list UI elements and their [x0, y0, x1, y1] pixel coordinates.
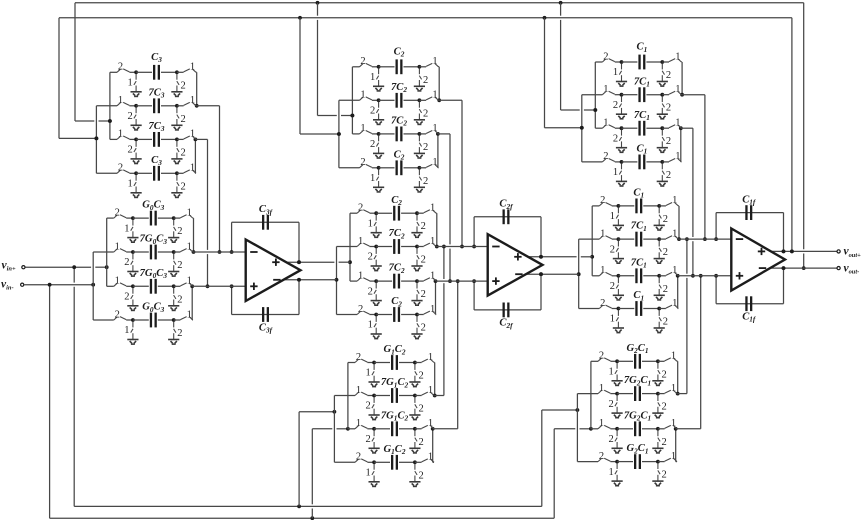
- svg-text:2: 2: [663, 284, 668, 295]
- wire: [177, 138, 184, 140]
- switched-capacitor cell: C2 (row 4): [337, 296, 437, 339]
- svg-text:2: 2: [177, 294, 182, 305]
- svg-text:2: 2: [124, 257, 129, 268]
- node: [580, 126, 584, 130]
- capacitor G0C3: [150, 313, 152, 328]
- wire: [174, 319, 181, 321]
- wire: [404, 99, 420, 101]
- wire: rail rows1&2 right of bank T3: [681, 62, 683, 95]
- switch phase 2 (G0C3 row1 gnd-right): [174, 220, 176, 238]
- node: [657, 307, 661, 311]
- svg-text:2: 2: [124, 292, 129, 303]
- svg-text:1: 1: [672, 298, 677, 309]
- node: [677, 237, 681, 241]
- wire: [676, 428, 701, 430]
- node: [442, 245, 446, 249]
- svg-text:1: 1: [608, 367, 613, 378]
- svg-text:2: 2: [368, 252, 373, 263]
- switch phase 1 (C3 row1 right): [184, 69, 196, 72]
- svg-text:2: 2: [360, 157, 365, 168]
- wire: [110, 138, 117, 140]
- node: [580, 126, 584, 130]
- wire: [419, 66, 426, 68]
- switch phase 1 (7C2 row3 left): [357, 278, 369, 281]
- capacitor C1: [635, 199, 637, 214]
- node: [105, 265, 109, 269]
- wire: [680, 94, 683, 96]
- wire: [352, 66, 359, 68]
- wire: [174, 251, 181, 253]
- svg-text:1: 1: [368, 320, 373, 331]
- switch phase 2 (G1C2 row4 left): [355, 459, 367, 462]
- node: [413, 361, 417, 365]
- ground: [131, 125, 142, 130]
- wire: [379, 99, 395, 101]
- switch phase 1 (7C2 row2 right): [426, 97, 438, 100]
- node: [175, 104, 179, 108]
- wire: [618, 275, 634, 277]
- switch phase 2 (7G2C1 row3 gnd-right): [658, 430, 660, 448]
- switch phase 2 (C1 row4 left): [599, 305, 611, 308]
- switched-capacitor cell: 7C1 (row 3): [595, 110, 681, 153]
- ground: [373, 86, 384, 91]
- svg-text:2: 2: [365, 434, 370, 445]
- wire: [579, 238, 600, 240]
- wire: [560, 3, 562, 16]
- switch phase 1 (7G2C1 row2 left): [598, 390, 610, 393]
- svg-text:2: 2: [118, 163, 123, 174]
- node: [374, 313, 378, 317]
- ground: [616, 114, 627, 119]
- wire: [642, 360, 658, 362]
- node: [372, 460, 376, 464]
- wire: [401, 314, 417, 316]
- switch phase 2 (C2 row1 gnd-right): [417, 215, 419, 233]
- ground: [613, 259, 624, 264]
- node: [679, 126, 683, 130]
- switched-capacitor cell: 7G2C1 (row 3): [591, 410, 677, 453]
- switched-capacitor cell: 7C1 (row 2): [579, 221, 732, 264]
- svg-text:2: 2: [423, 142, 428, 153]
- wire: feedback loop bottom (C1f): [715, 276, 717, 304]
- node: [433, 394, 437, 398]
- node: [172, 284, 176, 288]
- wire: [618, 238, 634, 240]
- wire: [692, 128, 694, 237]
- pin label + (non-inverting input): [250, 285, 257, 287]
- wire: [643, 238, 659, 240]
- svg-text:2: 2: [358, 304, 363, 315]
- ground: [127, 238, 138, 243]
- wire: [642, 393, 658, 395]
- switch phase 2 (7C2 row2 gnd-left): [376, 102, 378, 120]
- svg-text:2: 2: [180, 147, 185, 158]
- node: [617, 204, 621, 208]
- node: [539, 255, 543, 259]
- wire: feedback loop top (C2f): [473, 217, 475, 247]
- svg-text:2: 2: [180, 80, 185, 91]
- switch phase 2 (7C1 row2 gnd-right): [659, 241, 661, 259]
- node: [656, 460, 660, 464]
- wire: [93, 319, 114, 321]
- wire: feedback loop top (C3f): [231, 222, 233, 252]
- wire: [24, 284, 93, 286]
- wire: [126, 285, 133, 287]
- ground: [371, 266, 382, 271]
- switched-capacitor cell: 7C3 (row 3): [110, 121, 196, 164]
- node: [346, 427, 350, 431]
- wire: [207, 139, 209, 250]
- wire: [107, 217, 114, 219]
- switched-capacitor cell: C1 (row 1): [592, 188, 679, 231]
- wire: [461, 100, 463, 246]
- wire: [646, 61, 662, 63]
- node: [660, 160, 664, 164]
- switched-capacitor cell: C3 (row 4): [96, 155, 196, 198]
- node: [131, 284, 135, 288]
- wire: rail rows3&4 right of bank M1: [191, 286, 193, 320]
- input terminal v_in+: [22, 266, 25, 269]
- switched-capacitor cell: 7C3 (row 2): [96, 87, 196, 129]
- switch phase 2 (7C1 row3 gnd-left): [616, 277, 618, 295]
- wire: [161, 138, 177, 140]
- wire: [579, 308, 600, 310]
- wire: [544, 18, 546, 128]
- node: [172, 216, 176, 220]
- capacitor C1: [635, 301, 637, 316]
- wire: [161, 172, 177, 174]
- wire: [376, 314, 392, 316]
- capacitor 7C2: [393, 274, 395, 289]
- switched-capacitor cell: 7C2 (row 3): [352, 116, 438, 159]
- node: [333, 410, 337, 414]
- svg-text:1: 1: [432, 157, 437, 168]
- wire: [617, 428, 633, 430]
- wire: [553, 429, 555, 518]
- wire: [193, 251, 246, 253]
- pin label - (inverting input): [736, 238, 743, 240]
- pin label + (positive output): [514, 256, 521, 258]
- svg-text:2: 2: [600, 298, 605, 309]
- wire: [658, 393, 665, 395]
- wire: [195, 138, 207, 140]
- node: [337, 132, 341, 136]
- svg-text:1: 1: [675, 51, 680, 62]
- switch phase 1 (7G2C1 row3 left): [598, 425, 610, 428]
- node: [134, 171, 138, 175]
- node: [175, 138, 179, 142]
- switch phase 1 (G1C2 row4 gnd-left): [372, 464, 374, 482]
- capacitor 7C1: [635, 268, 637, 283]
- svg-text:2: 2: [421, 255, 426, 266]
- switch phase 1 (7C3 row2 left): [117, 102, 129, 105]
- svg-text:1: 1: [365, 368, 370, 379]
- switch phase 1 (7C2 row2 right): [424, 243, 436, 246]
- capacitor C2f (top): [503, 209, 505, 224]
- svg-text:2: 2: [613, 133, 618, 144]
- wire: [158, 217, 174, 219]
- svg-text:2: 2: [418, 404, 423, 415]
- capacitor 7C2: [393, 239, 395, 254]
- capacitor C2: [396, 59, 398, 74]
- node: [374, 245, 378, 249]
- pin label - (inverting input): [250, 251, 257, 253]
- wire: [618, 308, 634, 310]
- node: [372, 394, 376, 398]
- wire: [367, 461, 374, 463]
- wire: [415, 428, 422, 430]
- switch phase 2 (7C1 row2 gnd-left): [619, 96, 621, 114]
- svg-text:2: 2: [423, 75, 428, 86]
- switch phase 2 (7G1C2 row3 gnd-left): [372, 430, 374, 448]
- ground: [652, 448, 663, 453]
- wire: rail rows1&3 of bank B3: [590, 361, 592, 429]
- capacitor C2: [396, 160, 398, 175]
- node: [620, 93, 624, 97]
- capacitor 7C3: [153, 98, 155, 113]
- ground: [612, 413, 623, 418]
- wire: rail rows1&2 right of bank T2: [438, 67, 440, 101]
- ground: [414, 120, 425, 125]
- svg-text:1: 1: [671, 418, 676, 429]
- capacitor 7C1: [638, 87, 640, 102]
- wire: [676, 428, 677, 430]
- svg-text:1: 1: [187, 276, 192, 287]
- switch phase 1 (7C1 row2 right): [669, 91, 681, 94]
- switch phase 1 (G0C3 row1 right): [180, 215, 192, 218]
- wire: rail rows3&4 right of bank B2: [432, 429, 434, 463]
- wire: [192, 217, 195, 219]
- node: [436, 132, 440, 136]
- svg-text:1: 1: [675, 118, 680, 129]
- node: [134, 104, 138, 108]
- wire: op-amp U1 out- to bank M2: [282, 279, 337, 281]
- svg-text:1: 1: [118, 129, 123, 140]
- svg-text:1: 1: [672, 265, 677, 276]
- wire: [704, 95, 706, 239]
- wire: [436, 280, 488, 282]
- svg-text:1: 1: [599, 383, 604, 394]
- svg-text:2: 2: [661, 369, 666, 380]
- wire: [399, 461, 415, 463]
- node: [435, 245, 439, 249]
- node: [657, 204, 661, 208]
- wire: [129, 71, 136, 73]
- wire: [299, 411, 334, 413]
- node: [374, 279, 378, 283]
- capacitor 7C2: [396, 93, 398, 108]
- node: [134, 138, 138, 142]
- node: [372, 427, 376, 431]
- switch phase 1 (7C1 row2 left): [602, 91, 614, 94]
- switch phase 2 (C1 row1 gnd-right): [659, 207, 661, 225]
- svg-text:1: 1: [190, 163, 195, 174]
- wire: [133, 285, 149, 287]
- wire: [615, 161, 622, 163]
- switch phase 2 (C3 row4 gnd-right): [177, 175, 179, 193]
- wire: [404, 66, 420, 68]
- switched-capacitor cell: 7G1C2 (row 3): [348, 410, 434, 453]
- switch phase 1 (C2 row4 right): [424, 311, 436, 314]
- wire: rail rows2&4 of bank T1: [95, 106, 97, 174]
- switch phase 2 (C1 row4 gnd-right): [662, 163, 664, 181]
- wire: [370, 280, 377, 282]
- wire: [74, 3, 76, 121]
- node: [460, 245, 464, 249]
- ground: [373, 187, 384, 192]
- capacitor 7G1C2: [391, 388, 393, 403]
- switch phase 1 (C1 row1 right): [669, 59, 681, 62]
- node: [685, 237, 689, 241]
- wire: [110, 71, 117, 73]
- node: [782, 266, 786, 270]
- wire: [642, 461, 658, 463]
- wire: [582, 161, 603, 163]
- wire: [93, 251, 114, 253]
- wire: [372, 99, 379, 101]
- wire: [622, 94, 638, 96]
- wire: [197, 105, 220, 107]
- switch phase 1 (7C2 row3 left): [360, 131, 372, 134]
- switch phase 2 (C1 row4 left): [602, 159, 614, 162]
- switch phase 2 (7G2C1 row2 gnd-right): [658, 395, 660, 413]
- wire: [136, 71, 152, 73]
- wire: [195, 71, 198, 73]
- wire: [311, 429, 313, 505]
- wire: [658, 360, 665, 362]
- svg-text:2: 2: [613, 100, 618, 111]
- wire: [610, 428, 617, 430]
- switch phase 2 (C2 row4 left): [357, 311, 369, 314]
- switch phase 1 (G1C2 row1 gnd-left): [372, 364, 374, 382]
- switched-capacitor cell: 7C1 (row 3): [592, 257, 731, 300]
- node: [790, 250, 794, 254]
- switch phase 2 (7C2 row2 gnd-right): [417, 248, 419, 266]
- node: [576, 408, 580, 412]
- switch phase 1 (7C3 row3 left): [117, 136, 129, 139]
- switch phase 2 (7C1 row2 gnd-left): [616, 241, 618, 259]
- wire: [595, 61, 602, 63]
- svg-text:2: 2: [610, 244, 615, 255]
- switch phase 2 (7C3 row2 gnd-right): [177, 107, 179, 125]
- svg-text:1: 1: [115, 276, 120, 287]
- ground: [657, 114, 668, 119]
- switch phase 1 (C1 row1 gnd-left): [619, 64, 621, 82]
- svg-text:2: 2: [423, 108, 428, 119]
- wire: [417, 314, 424, 316]
- wire: [437, 167, 440, 169]
- node: [620, 126, 624, 130]
- node: [298, 16, 302, 20]
- svg-text:1: 1: [603, 118, 608, 129]
- wire: [419, 167, 426, 169]
- wire: rail rows1&3 of bank T3: [594, 62, 596, 128]
- switch phase 1 (C1 row1 gnd-left): [616, 207, 618, 225]
- wire: [107, 285, 114, 287]
- wire: rail rows1&3 of bank T1: [109, 72, 111, 139]
- ground: [171, 92, 182, 97]
- capacitor C1: [638, 155, 640, 170]
- switch phase 2 (7C2 row3 gnd-right): [417, 283, 419, 301]
- svg-text:2: 2: [661, 437, 666, 448]
- ground: [168, 238, 179, 243]
- wire: [75, 120, 94, 122]
- wire: [374, 395, 390, 397]
- ground: [131, 92, 142, 97]
- node: [377, 132, 381, 136]
- wire: [376, 280, 392, 282]
- switch phase 2 (C2 row4 gnd-right): [419, 169, 421, 187]
- svg-text:1: 1: [613, 167, 618, 178]
- wire: feedback loop top (C1f): [715, 213, 717, 240]
- switch phase 1 (7C2 row3 right): [426, 131, 438, 134]
- wire: rail rows1&2 right of bank M2: [436, 213, 438, 246]
- wire: bottom input distribution line (v_in+ net): [73, 267, 75, 282]
- svg-text:2: 2: [603, 151, 608, 162]
- svg-text:2: 2: [180, 114, 185, 125]
- switch phase 1 (G2C1 row1 gnd-left): [615, 363, 617, 381]
- wire: rail rows1&3 of bank M3: [591, 206, 593, 276]
- capacitor 7C1: [635, 232, 637, 247]
- capacitor C2: [393, 307, 395, 322]
- node: [131, 250, 135, 254]
- switch phase 2 (7G1C2 row2 gnd-right): [415, 397, 417, 415]
- switch phase 2 (7G0C3 row3 gnd-left): [131, 288, 133, 306]
- wire: op-amp U2 out- to bank M3: [524, 273, 579, 275]
- wire: [136, 105, 152, 107]
- svg-text:2: 2: [358, 203, 363, 214]
- switch phase 1 (C1 row4 right): [666, 305, 678, 308]
- wire: rail rows1&2 right of bank M1: [193, 218, 195, 252]
- wire: [659, 308, 666, 310]
- wire: [646, 94, 662, 96]
- switched-capacitor cell: C1 (row 1): [595, 42, 682, 86]
- wire: [433, 461, 434, 463]
- switch phase 2 (7C2 row3 gnd-left): [376, 135, 378, 153]
- wire: [646, 161, 662, 163]
- ground: [373, 120, 384, 125]
- wire: [646, 127, 662, 129]
- node: [415, 279, 419, 283]
- wire: [379, 66, 395, 68]
- svg-text:1: 1: [428, 385, 433, 396]
- wire: [352, 133, 359, 135]
- wire: [678, 393, 687, 395]
- svg-text:1: 1: [428, 352, 433, 363]
- wire: [350, 280, 357, 282]
- switch phase 2 (7C1 row3 gnd-right): [662, 130, 664, 148]
- ground: [168, 306, 179, 311]
- wire: [612, 205, 619, 207]
- wire: [433, 362, 436, 364]
- svg-text:1: 1: [190, 62, 195, 73]
- wire: [680, 61, 683, 63]
- wire: [133, 319, 149, 321]
- svg-text:2: 2: [177, 328, 182, 339]
- wire: [577, 461, 598, 463]
- pin label + (non-inverting input): [736, 275, 743, 277]
- switch phase 2 (G0C3 row4 gnd-right): [174, 322, 176, 340]
- switched-capacitor cell: 7C2 (row 3): [350, 263, 488, 306]
- wire: rail rows1&2 right of bank B3: [677, 361, 679, 393]
- switch phase 1 (7G2C1 row2 right): [665, 390, 677, 393]
- wire: [350, 212, 357, 214]
- ground: [654, 328, 665, 333]
- node: [413, 460, 417, 464]
- switch phase 1 (7C2 row2 left): [357, 243, 369, 246]
- svg-text:2: 2: [423, 176, 428, 187]
- switch phase 2 (C3 row1 left): [117, 69, 129, 72]
